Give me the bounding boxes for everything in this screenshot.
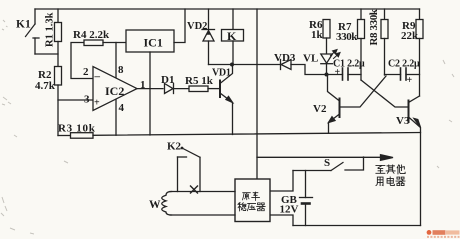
resistor R9 22k	[401, 9, 423, 96]
resistor R6 1k	[309, 19, 330, 54]
svg-text:R4 2.2k: R4 2.2k	[73, 29, 110, 41]
resistor R3 10k	[58, 123, 96, 139]
node X mark on winding wire	[191, 186, 198, 193]
svg-text:W: W	[149, 199, 161, 211]
capacitor C1 2.2u	[333, 59, 365, 81]
watermark logo	[427, 230, 460, 237]
node V1 collector junction	[230, 63, 234, 67]
svg-text:+: +	[94, 98, 100, 109]
relay coil K	[222, 9, 244, 65]
svg-text:K1: K1	[16, 19, 31, 31]
inductor W generator winding	[149, 192, 235, 216]
transistor V3	[396, 96, 421, 226]
svg-text:VL: VL	[303, 53, 318, 65]
wire regulator ground stub	[270, 215, 293, 226]
svg-text:D1: D1	[161, 74, 174, 86]
svg-text:R1 1.3k: R1 1.3k	[45, 12, 56, 47]
svg-text:+: +	[335, 67, 341, 78]
svg-text:R3 10k: R3 10k	[58, 123, 96, 135]
svg-text:1k: 1k	[311, 29, 324, 41]
label 至其他	[376, 165, 405, 174]
resistor R5 1k	[185, 75, 220, 92]
IC U IC1	[126, 30, 174, 52]
svg-text:IC2: IC2	[105, 84, 124, 98]
wire pin8	[115, 43, 117, 78]
wire bottom return rail	[293, 225, 421, 227]
resistor R1 1.3k	[45, 9, 62, 67]
svg-text:VD3: VD3	[274, 52, 296, 64]
switch S	[293, 157, 364, 171]
svg-text:K2: K2	[167, 141, 182, 153]
transistor V1	[212, 65, 233, 135]
svg-text:8: 8	[118, 64, 124, 76]
svg-text:R8 330k: R8 330k	[368, 8, 380, 45]
label 用电器	[376, 177, 405, 186]
svg-text:330k: 330k	[336, 31, 358, 43]
switch K2 relay contact	[167, 141, 200, 192]
wire emitter ground rail	[93, 133, 421, 136]
wire cross coupling R8 to V2 base	[340, 76, 387, 107]
wire op-amp pin3 input	[58, 99, 93, 101]
svg-text:C2 2.2μ: C2 2.2μ	[388, 59, 420, 70]
wire IC1 right to top rail	[174, 9, 185, 43]
wire op-amp output	[137, 88, 163, 90]
wire IC1 bottom to ground rail	[149, 52, 151, 135]
svg-text:S: S	[324, 157, 330, 169]
svg-text:VD1: VD1	[212, 68, 231, 79]
switch K1	[16, 9, 58, 54]
svg-text:VD2: VD2	[187, 21, 207, 32]
wire pin4	[115, 100, 117, 136]
svg-text:4.7k: 4.7k	[35, 80, 56, 92]
transistor V2	[313, 75, 340, 134]
svg-text:3: 3	[84, 94, 90, 106]
svg-text:+: +	[407, 75, 413, 86]
op-amp U IC2	[83, 64, 146, 114]
wire center positive bus	[256, 9, 258, 179]
LED VL	[303, 50, 340, 75]
diode D1	[161, 74, 189, 94]
svg-text:K: K	[227, 29, 237, 43]
resistor R4 2.2k	[71, 29, 126, 79]
label 稳压器	[238, 202, 265, 210]
svg-text:IC1: IC1	[144, 36, 163, 50]
resistor R8 330k	[368, 8, 388, 75]
svg-text:2: 2	[83, 66, 89, 78]
zener diode VD2	[187, 9, 215, 65]
resistor R2 4.7k	[35, 67, 62, 136]
diode VD3	[274, 52, 343, 75]
box regulator 原车稳压器	[235, 179, 270, 222]
svg-text:–: –	[94, 71, 101, 83]
capacitor C2 2.2u	[385, 59, 421, 87]
resistor R7 330k	[336, 9, 365, 80]
wire top supply rail	[35, 8, 420, 10]
battery GB 12V	[280, 171, 313, 226]
svg-text:V2: V2	[313, 103, 327, 115]
wire load feed rail with arrow	[257, 155, 393, 161]
wire regulator output riser	[270, 171, 293, 192]
wire cross coupling R7 to V3 base	[361, 80, 409, 107]
wire relay bottom rail	[209, 64, 281, 66]
svg-text:22k: 22k	[401, 30, 419, 42]
svg-text:4: 4	[119, 102, 125, 114]
node R6 VL C1 V2 junction	[325, 73, 329, 77]
svg-text:R5 1k: R5 1k	[185, 75, 214, 87]
label 原车	[243, 192, 260, 200]
svg-text:12V: 12V	[280, 204, 299, 216]
svg-text:V3: V3	[396, 115, 410, 127]
